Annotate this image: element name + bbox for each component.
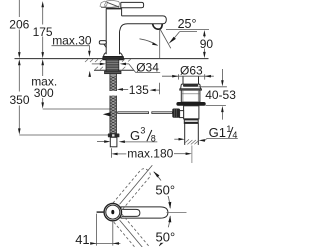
swivel arc upper 50deg [154,172,170,208]
dimension Ø34 arrows [92,63,101,65]
svg-text:G: G [130,128,140,143]
top view: body inner ring [106,205,120,219]
swivel arc lower 50deg [159,216,170,246]
svg-text:41: 41 [75,232,89,247]
pop-up waste horizontal rod [103,112,111,116]
waste body [184,106,199,119]
svg-text:Ø34: Ø34 [136,60,159,74]
spout outlet level reference line [166,28,209,30]
svg-text:175: 175 [33,25,53,39]
Ø63 dimension line and ticks [162,75,214,77]
top view: lever bar [121,207,168,218]
svg-text:300: 300 [34,86,54,100]
faucet body right edge [119,31,121,54]
spout vertical stream line [159,30,161,59]
hose end nut [108,134,120,138]
25-degree tilted stream line [160,30,171,49]
hose end tube [110,137,117,147]
pull-rod knob at back [99,41,106,45]
top view: lever slot [122,209,140,216]
label 50deg upper [153,181,176,197]
dimension line 206/350 (x=19.3) [18,0,20,17]
G1 1/4 pipe diameter arrows [174,138,179,140]
svg-text:40-53: 40-53 [205,88,236,102]
waste rubber flange [176,102,205,106]
top view: back tick [97,211,104,213]
waste plug cap [181,84,201,89]
svg-text:90: 90 [200,37,214,51]
dimension 41 [95,214,97,246]
rod connector housing [180,111,184,118]
dimension 135 [117,88,123,91]
base escutcheon plate [103,56,124,60]
waste union nut [184,119,198,124]
svg-text:G1: G1 [209,125,226,140]
top view: cartridge stem [111,210,114,214]
deck underside line [94,69,134,71]
under-deck shank [106,59,119,71]
dimension 90 (x=204.4) [203,30,206,36]
cap lip [180,89,202,90]
spout outline [120,8,167,32]
deck section hatching right [122,59,131,69]
svg-text:206: 206 [9,17,29,31]
svg-text:3: 3 [140,126,145,136]
svg-text:25°: 25° [178,17,197,31]
drain centerline [191,146,193,164]
body base flares [104,53,107,57]
350 bottom reference line [19,134,108,136]
faucet lever bar (side view) [121,2,144,7]
waste plug stem [182,76,184,84]
shank collar nut [105,71,122,74]
rotated position centerline upper [120,165,153,204]
label 50deg lower [153,227,176,243]
deck section hatching left [85,59,103,69]
faucet lever ghost sketch [100,0,120,8]
dimension max.180 [110,148,112,158]
outlet centerline tick below deck [159,83,161,94]
dimension 40-53 [221,69,223,81]
rotated position centerline lower [120,220,143,247]
svg-text:350: 350 [9,93,29,107]
hose break gap [109,91,117,96]
stream swivel arc arrow [140,39,158,46]
dimension line 175/max300 (x=42.7) [41,1,44,7]
top view: centerline right [167,211,187,213]
faucet body left edge [105,9,107,54]
top view: upper dashed lever at 50deg [113,167,152,211]
top view: lower dashed lever at 50deg [113,214,152,247]
svg-text:Ø63: Ø63 [180,63,203,77]
flexible supply hose [110,74,117,134]
svg-text:135: 135 [129,83,149,97]
mousseur tip [153,24,163,29]
rod knurled knob [172,109,180,118]
top view: body outer circle [104,203,121,220]
max300 bottom reference line [43,108,110,110]
faucet head top heavy line [106,8,121,10]
svg-text:max.180: max.180 [127,146,173,160]
tube inward arrow left [97,141,105,143]
svg-text:50°: 50° [155,183,175,198]
svg-text:50°: 50° [156,230,176,245]
waste tailpipe [184,123,186,144]
deck / mounting surface top line [15,58,209,60]
waste upper cylinder [181,90,200,102]
